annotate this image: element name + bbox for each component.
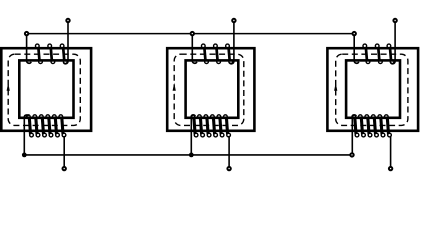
terminal: T2 top bus junction <box>191 32 194 35</box>
terminal: T2 bottom free lead <box>227 167 230 170</box>
terminal: T1 top free lead <box>66 19 69 22</box>
terminal: T1 bottom free lead <box>62 167 65 170</box>
flux arrow phi3 (pointing up) <box>334 83 337 91</box>
core T2 window (inner edge) <box>186 60 239 117</box>
flux path phi3 (dashed loop) <box>336 54 408 125</box>
terminal: T1 top bus junction <box>25 32 28 35</box>
core T1 (laminated core outer edge) <box>1 48 91 131</box>
bottom bus wire <box>24 154 352 156</box>
secondary winding W1b (bottom limb) <box>24 115 66 167</box>
primary winding W2a (top limb) <box>192 21 234 64</box>
primary winding W1a (top limb) <box>27 21 68 64</box>
flux path phi2 (dashed loop) <box>174 54 244 125</box>
flux path phi1 (dashed loop) <box>8 54 80 125</box>
terminal: T3 bottom free lead <box>389 167 392 170</box>
core T3 (laminated core outer edge) <box>327 48 418 131</box>
terminal: T3 top free lead <box>393 19 396 22</box>
junction dot: T2 bottom bus <box>189 153 194 158</box>
primary winding W3a (top limb) <box>354 21 395 64</box>
secondary winding W2b (bottom limb) <box>191 115 230 167</box>
terminal: T3 top bus junction <box>353 32 356 35</box>
terminal: T2 top free lead <box>232 19 235 22</box>
core T1 window (inner edge) <box>19 60 73 117</box>
secondary winding W3b (bottom limb) <box>352 115 391 167</box>
flux arrow phi1 (pointing up) <box>7 83 10 91</box>
terminal: bottom bus right end <box>350 153 353 156</box>
core T3 window (inner edge) <box>346 60 400 117</box>
junction dot: T1 bottom bus <box>22 153 27 158</box>
core T2 (laminated core outer edge) <box>167 48 254 131</box>
top bus wire <box>27 33 355 35</box>
flux arrow phi2 (pointing up) <box>173 83 176 91</box>
